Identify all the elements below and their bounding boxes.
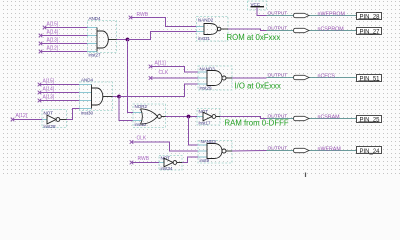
node RWB (second) bbox=[130, 156, 150, 164]
svg-text:A[14]: A[14] bbox=[43, 87, 55, 93]
svg-text:A[14]: A[14] bbox=[47, 30, 59, 36]
svg-text:A[15]: A[15] bbox=[43, 79, 55, 85]
svg-text:inst31: inst31 bbox=[198, 36, 211, 41]
wire NAND3 inst9 to output nWERAM bbox=[232, 150, 267, 153]
svg-text:ROM at 0xFxxx: ROM at 0xFxxx bbox=[227, 33, 281, 42]
wire CLK to NAND3 inst9 bbox=[132, 142, 199, 151]
wire ROM-decode to NOR2 inst22 bbox=[128, 40, 134, 113]
wire A12 to AND4 inst27 bbox=[41, 51, 88, 53]
svg-text:NOT: NOT bbox=[44, 111, 54, 116]
wire IO-decode to NAND3 inst29 bbox=[119, 84, 198, 97]
svg-text:RAM from 0-DFFF: RAM from 0-DFFF bbox=[225, 119, 289, 128]
wire A15 to AND4 inst27 bbox=[45, 27, 88, 29]
nand-gate U9 NAND3 inst9 bbox=[198, 139, 232, 163]
wire RWB to NOT inst34 bbox=[132, 162, 160, 164]
wire A12 to NOT inst28 bbox=[13, 119, 43, 121]
junction node RAM-select bbox=[187, 115, 191, 119]
node CLK (second) bbox=[130, 136, 147, 144]
node A[12] (to inverter) bbox=[11, 113, 28, 121]
not-gate U8 NOT inst34 bbox=[159, 156, 182, 172]
svg-text:CLK: CLK bbox=[159, 70, 169, 76]
svg-text:A[11]: A[11] bbox=[155, 61, 167, 67]
svg-text:inst17: inst17 bbox=[199, 121, 212, 126]
svg-text:A[13]: A[13] bbox=[43, 95, 55, 101]
svg-text:inst29: inst29 bbox=[200, 86, 213, 91]
wire CLK to NAND3 inst29 bbox=[151, 77, 199, 79]
svg-text:OUTPUT: OUTPUT bbox=[268, 11, 288, 17]
output pin nWERAM PIN_24 bbox=[267, 146, 382, 156]
wire VCC to output nWEPROM bbox=[257, 7, 267, 15]
svg-text:OUTPUT: OUTPUT bbox=[268, 114, 288, 120]
svg-text:PIN_28: PIN_28 bbox=[360, 15, 381, 21]
svg-text:nCFCS: nCFCS bbox=[318, 74, 336, 80]
svg-text:A[13]: A[13] bbox=[47, 38, 59, 44]
svg-text:inst28: inst28 bbox=[44, 124, 57, 129]
output pin nWEPROM PIN_28 bbox=[267, 11, 382, 21]
junction node IO-decode bbox=[117, 95, 121, 99]
wire NOT inst17 to output nCSRAM bbox=[220, 117, 267, 119]
power VCC bbox=[248, 1, 267, 10]
svg-text:nWEPROM: nWEPROM bbox=[318, 12, 345, 18]
wire NOT inst34 to NAND3 inst9 bbox=[182, 157, 198, 163]
wire RAM-select to NAND3 inst9 bbox=[189, 117, 199, 146]
svg-text:nCSPROM: nCSPROM bbox=[318, 27, 344, 33]
svg-text:RWB: RWB bbox=[138, 156, 150, 162]
wire AND4 inst27 output bbox=[117, 39, 128, 41]
node A[14] (second) bbox=[38, 87, 55, 95]
wire A11 to NAND3 inst29 bbox=[151, 67, 199, 73]
node A[11] bbox=[149, 61, 167, 69]
node A[13] bbox=[39, 38, 59, 46]
svg-text:PIN_25: PIN_25 bbox=[360, 118, 381, 124]
svg-text:I/O at 0xExxx: I/O at 0xExxx bbox=[235, 82, 281, 91]
junction node ROM-decode bbox=[126, 38, 130, 42]
svg-text:nWERAM: nWERAM bbox=[318, 147, 341, 153]
wire A15 to AND4 inst30 bbox=[40, 84, 80, 86]
sheet bottom tick bbox=[305, 173, 307, 178]
svg-text:CLK: CLK bbox=[137, 136, 147, 142]
wire IO-decode to NOR2 inst22 bbox=[119, 97, 133, 121]
svg-text:PIN_24: PIN_24 bbox=[360, 149, 381, 155]
not-gate U7 NOT inst17 bbox=[197, 109, 220, 126]
node A[14] bbox=[39, 30, 59, 38]
node A[13] (second) bbox=[38, 95, 55, 103]
node CLK (first) bbox=[149, 70, 169, 80]
svg-text:AND4: AND4 bbox=[81, 78, 94, 83]
svg-text:OUTPUT: OUTPUT bbox=[268, 73, 288, 79]
and-gate U1 AND4 inst27 bbox=[88, 16, 117, 58]
wire A13 to AND4 inst27 bbox=[41, 43, 88, 45]
wire AND4 inst30 output bbox=[113, 96, 120, 98]
wire RWB to NAND2 inst31 bbox=[131, 18, 197, 27]
output pin nCSRAM PIN_25 bbox=[267, 114, 382, 124]
svg-text:PIN_51: PIN_51 bbox=[360, 77, 381, 83]
svg-text:OUTPUT: OUTPUT bbox=[268, 26, 288, 32]
nand-gate U2 NAND2 inst31 bbox=[197, 17, 229, 42]
svg-text:nCSRAM: nCSRAM bbox=[318, 115, 340, 121]
svg-text:inst34: inst34 bbox=[161, 166, 174, 171]
node A[15] (second) bbox=[38, 79, 55, 87]
svg-text:AND4: AND4 bbox=[89, 16, 102, 21]
output pin nCSPROM PIN_27 bbox=[267, 26, 382, 36]
svg-text:PIN_27: PIN_27 bbox=[360, 30, 381, 36]
svg-text:A[15]: A[15] bbox=[47, 22, 59, 28]
svg-text:inst27: inst27 bbox=[89, 53, 102, 58]
not-gate U3 NOT inst28 bbox=[42, 110, 67, 130]
wire A14 to AND4 inst27 bbox=[41, 35, 88, 37]
wire A13 to AND4 inst30 bbox=[40, 100, 80, 102]
svg-text:A[12]: A[12] bbox=[47, 46, 59, 52]
wire NAND3 inst29 to output nCFCS bbox=[232, 77, 267, 79]
svg-text:NOR2: NOR2 bbox=[135, 104, 148, 109]
wire NAND2 inst31 to output nCSPROM bbox=[228, 29, 267, 31]
output pin nCFCS PIN_51 bbox=[267, 73, 382, 83]
node A[15] (top) bbox=[43, 22, 59, 30]
wire A14 to AND4 inst30 bbox=[40, 92, 80, 94]
svg-text:OUTPUT: OUTPUT bbox=[268, 146, 288, 152]
svg-text:NAND2: NAND2 bbox=[198, 18, 214, 23]
svg-text:A[12]: A[12] bbox=[16, 113, 28, 119]
node RWB (top) bbox=[129, 12, 149, 19]
node A[12] bbox=[39, 46, 59, 54]
wire ROM-decode to NAND2 inst31 bbox=[128, 32, 197, 40]
and-gate U4 AND4 inst30 bbox=[80, 78, 113, 116]
wire NOT inst28 to AND4 inst30 bbox=[67, 109, 80, 120]
wire NOR2 inst22 to junction bbox=[166, 116, 198, 118]
svg-text:NOT: NOT bbox=[161, 156, 171, 161]
nor-gate U6 NOR2 inst22 bbox=[133, 104, 166, 128]
svg-text:inst30: inst30 bbox=[81, 111, 94, 116]
nand-gate U5 NAND3 inst29 bbox=[198, 66, 232, 91]
